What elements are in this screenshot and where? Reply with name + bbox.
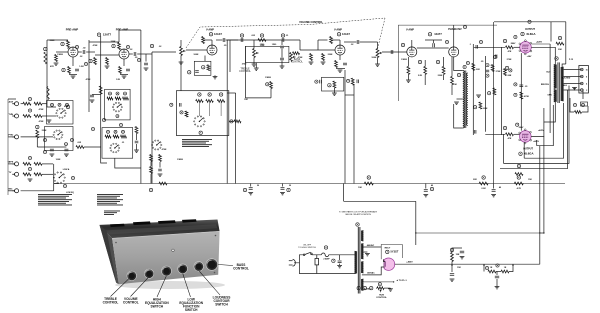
resistor R30 plate V2A [202, 37, 205, 44]
wire [318, 39, 328, 41]
wire to fuse [312, 254, 321, 255]
capacitor C51 filter [450, 274, 454, 276]
wire [67, 48, 69, 50]
wire cathode V1B [123, 59, 125, 66]
svg-text:270K: 270K [496, 71, 501, 73]
svg-text:TAPE: TAPE [8, 161, 14, 164]
wire to switch [42, 115, 56, 117]
terminal 8 ohm [581, 75, 584, 78]
wire grid feed 1 [474, 46, 505, 48]
transformer T2 primary top [554, 65, 557, 89]
resistor R63b [493, 88, 496, 95]
wire to switch [21, 136, 53, 138]
ground tone [254, 68, 259, 70]
resistor R18 mix [34, 173, 42, 176]
part number R37 [208, 93, 211, 96]
resistor R36 loudness [196, 100, 203, 103]
transformer T3 filament winding [361, 279, 363, 291]
part number [71, 176, 74, 179]
part number hum pot [378, 283, 381, 286]
wire [503, 134, 505, 163]
triode V4A phase inverter [407, 47, 417, 57]
resistor R10 decoupling A [99, 86, 102, 94]
wire HV top lead [362, 246, 381, 248]
resistor R39b [185, 111, 188, 117]
wire [281, 40, 283, 45]
wire plate V5 to output transformer [531, 47, 555, 64]
terminal board speaker [579, 66, 589, 94]
ground C10 [50, 154, 55, 156]
part number C3 [75, 45, 78, 48]
wire [443, 57, 445, 66]
svg-text:22K: 22K [473, 179, 477, 181]
resistor R23c [121, 135, 127, 138]
wire [415, 233, 417, 245]
wire B+ branch [344, 200, 416, 202]
wire [253, 58, 255, 65]
ground cathode V1B [122, 76, 127, 78]
resistor R59 [451, 77, 454, 85]
svg-text:470K: 470K [93, 44, 98, 47]
ground R52 [321, 62, 326, 64]
svg-text:16: 16 [586, 70, 588, 72]
resistor R17 mix [23, 173, 31, 176]
text block switch list 2 [104, 211, 120, 215]
wire [424, 74, 426, 85]
part number [116, 92, 119, 95]
ground C7 [144, 68, 149, 70]
svg-text:470K: 470K [39, 120, 44, 123]
wire [377, 42, 379, 49]
capacitor C13 [135, 141, 139, 143]
wire volume to loudness box [180, 62, 182, 91]
svg-text:20K: 20K [558, 49, 562, 51]
wire [483, 265, 485, 271]
resistor R22c [123, 97, 129, 100]
wire [451, 85, 453, 96]
resistor R47 bus [514, 182, 523, 185]
svg-text:AUX: AUX [9, 101, 14, 104]
capacitor C24 [282, 38, 284, 42]
wire plate V4B [453, 25, 455, 47]
svg-text:15K: 15K [528, 179, 532, 181]
wire grid V2A [186, 49, 207, 51]
wire sec tap 8 [564, 76, 581, 78]
svg-text:+425V: +425V [536, 41, 543, 44]
box feedback network V2 [194, 61, 211, 75]
svg-text:100K: 100K [56, 159, 61, 161]
svg-text:270K: 270K [507, 59, 512, 61]
part number [119, 123, 122, 126]
resistor R63 [479, 102, 482, 109]
wire cathode V1A [72, 57, 74, 66]
part number C7 [137, 58, 140, 61]
part number [122, 130, 125, 133]
wire [8, 163, 15, 165]
wire feedback loop 3 [504, 86, 570, 164]
svg-text:220K: 220K [111, 41, 116, 43]
svg-text:BLU: BLU [547, 72, 552, 74]
wire HV riser 1 [539, 146, 541, 265]
wire grid V1B [95, 54, 119, 56]
text block high EQ switch positions [97, 194, 123, 205]
resistor R16 mix [34, 163, 42, 166]
svg-text:12AX7: 12AX7 [342, 32, 350, 36]
tube pin circles V5 [519, 40, 532, 55]
wire B+ riser mid [415, 201, 417, 245]
part number V6 [519, 152, 522, 155]
wire [540, 232, 544, 234]
wire [245, 97, 271, 99]
wire [150, 162, 152, 167]
wire [299, 40, 301, 50]
svg-text:OUTPUT: OUTPUT [523, 148, 533, 151]
part number F1 [324, 246, 327, 249]
wire plate V5 hidden [525, 30, 527, 42]
wire feedback loop 1 [537, 105, 554, 146]
resistor R51 [310, 54, 313, 61]
svg-text:6L6GA: 6L6GA [524, 152, 533, 156]
wire eq bus [37, 146, 66, 148]
wire [582, 106, 588, 112]
svg-text:220K: 220K [328, 54, 333, 56]
svg-text:8: 8 [586, 77, 587, 79]
svg-text:10K: 10K [453, 84, 457, 86]
wire [203, 39, 212, 41]
part number C6b [126, 45, 129, 48]
knob volume control [144, 269, 153, 278]
wire [523, 142, 525, 158]
part number [528, 20, 531, 23]
rotary switch S5 high EQ B [110, 143, 120, 153]
part number R54 [328, 84, 331, 87]
svg-text:470K: 470K [524, 95, 529, 98]
ground driver [476, 95, 481, 97]
wire grid feed 2 [485, 133, 505, 135]
wire drop V3 [344, 70, 346, 184]
wire [101, 150, 107, 163]
part number C42 [315, 80, 318, 83]
ground treble [252, 64, 257, 66]
capacitor C41 coupling V3 [357, 40, 359, 44]
wire [129, 53, 133, 55]
part number J4 [28, 156, 31, 159]
rotary switch S6 loudness contour [194, 116, 206, 127]
transformer T3 HV secondary top [361, 231, 363, 242]
wire [229, 120, 234, 122]
wire HV top to plate [362, 246, 402, 248]
wire primary top lead [355, 251, 357, 255]
leader treble [111, 279, 129, 297]
resistor R78 filter [501, 270, 509, 273]
AC plug P1 [289, 259, 296, 266]
resistor R40 [150, 167, 153, 174]
text block loudness switch note [182, 139, 212, 147]
ground jack 5 [28, 179, 33, 181]
wire [376, 287, 377, 289]
svg-text:47K: 47K [508, 137, 512, 140]
part number R4 [62, 68, 65, 71]
transformer T2 core 1 [557, 62, 559, 103]
wire [42, 103, 47, 105]
resistor box R70 [581, 102, 588, 106]
part number [114, 130, 117, 133]
wire plate 1 [383, 259, 385, 261]
part number [107, 130, 110, 133]
leader loudness [199, 271, 220, 295]
part number C27 [170, 103, 173, 106]
ground C31 [280, 193, 285, 195]
capacitor C26 bass [280, 58, 284, 60]
wire [562, 64, 566, 67]
capacitor C50 line [338, 261, 342, 263]
part number [573, 103, 576, 106]
svg-text:47K: 47K [508, 50, 512, 53]
wire [339, 264, 341, 265]
svg-text:470K: 470K [39, 108, 44, 111]
svg-text:VOLUME CONTROL: VOLUME CONTROL [299, 21, 323, 24]
part number R55 [347, 79, 350, 82]
resistor R50 plate V3 [330, 37, 333, 44]
ground V4A [406, 80, 411, 82]
part number R77 [485, 266, 488, 269]
box network V3 [322, 77, 344, 91]
wire grid V1A [56, 51, 68, 53]
ground C8 [90, 100, 95, 102]
capacitor C27 loudness [179, 103, 181, 107]
part number J1 [28, 97, 31, 100]
part number R45 [367, 176, 370, 179]
wire [415, 201, 417, 233]
wire cathode V3 [339, 55, 341, 60]
terminal 16 ohm [581, 68, 584, 71]
wire main B+ bus [54, 183, 565, 185]
wire [484, 265, 488, 271]
wire [42, 163, 53, 165]
wire [333, 88, 335, 93]
wire to bus [54, 183, 59, 185]
svg-text:V-AMP: V-AMP [334, 29, 342, 32]
resistor R52 [322, 54, 325, 61]
wire [226, 39, 238, 41]
text block low EQ switch positions [38, 194, 72, 205]
svg-text:5Y3GT: 5Y3GT [391, 251, 399, 254]
part number V2 [209, 33, 212, 36]
wire screen feed [550, 22, 552, 42]
triode V3 12AX7 [335, 45, 345, 55]
svg-text:2.2K: 2.2K [481, 188, 486, 190]
ground hum [388, 289, 393, 291]
junction dot [512, 265, 513, 266]
svg-text:22K: 22K [476, 69, 480, 71]
wire [120, 74, 128, 76]
resistor R32 feedback [207, 65, 210, 71]
svg-text:★ TO PL-1: ★ TO PL-1 [395, 279, 407, 282]
wire HV riser 2 [543, 136, 545, 233]
part number R20 [36, 125, 39, 128]
ground C30 [248, 193, 253, 195]
part number R47 [517, 176, 520, 179]
wire [209, 101, 211, 116]
wire [152, 51, 176, 53]
part number R66 [503, 39, 506, 42]
part number [479, 40, 482, 43]
wire PI plate to T1 [454, 57, 463, 71]
potentiometer volume control A [180, 47, 186, 56]
ground C32 [423, 195, 428, 197]
ground V3 [338, 70, 343, 72]
svg-text:MIC: MIC [9, 189, 13, 191]
triode V4B phase inverter [449, 47, 459, 57]
dashed gang line volume control [186, 18, 385, 48]
wire grid V4A [382, 51, 407, 53]
wire [8, 190, 15, 192]
part number [58, 103, 61, 106]
box rectifier label [381, 245, 402, 260]
part number [51, 103, 54, 106]
ground pot2 [375, 64, 380, 66]
part number [418, 60, 421, 63]
ground C53 [495, 287, 500, 289]
resistor R62 [491, 65, 494, 72]
part number C32 [430, 187, 433, 190]
box high EQ switch A lower [102, 128, 133, 159]
resistor R33 [258, 39, 266, 42]
wire [47, 99, 56, 107]
ground C52 [460, 257, 465, 259]
svg-text:15K: 15K [457, 267, 461, 269]
svg-text:500K: 500K [372, 57, 377, 59]
svg-text:BLK-RED: BLK-RED [562, 78, 571, 80]
rotary switch S7 [151, 140, 162, 150]
transformer T1 core line 2 [465, 71, 467, 129]
wire [425, 39, 442, 41]
part number R32 [202, 66, 205, 69]
wire [229, 40, 231, 72]
wire drive bus 1 [472, 44, 474, 135]
svg-text:470K: 470K [298, 56, 303, 59]
ground grid V1A [54, 63, 59, 65]
wire [425, 184, 427, 189]
part number [66, 103, 69, 106]
wire [514, 46, 520, 48]
part number J2 [28, 109, 31, 112]
box tone network [245, 46, 289, 62]
resistor R37 loudness [206, 100, 213, 103]
ground jack bus [47, 120, 52, 122]
svg-text:PHO: PHO [9, 135, 14, 137]
part number C46 [486, 64, 489, 67]
resistor R2 grid leak [55, 55, 58, 62]
wire top link A [119, 29, 141, 31]
wire [582, 89, 584, 99]
resistor R35 [270, 82, 273, 89]
ground C33 [491, 195, 496, 197]
box low EQ switch A upper [47, 101, 74, 125]
part number S1 [66, 105, 69, 108]
rotary switch S1 input selector [56, 108, 67, 118]
wire plate V6 to transformer [531, 122, 544, 136]
leader volume [131, 278, 149, 297]
svg-text:470K: 470K [86, 78, 91, 81]
resistor R46 bus [479, 182, 488, 185]
wire tone left drop [244, 46, 246, 98]
photo amplifier chassis [100, 219, 226, 289]
wire channel separator [151, 52, 153, 184]
part number R46 [482, 176, 485, 179]
part number R39b [180, 111, 183, 114]
part number R3 [61, 42, 64, 45]
wire drive bus 2 [485, 56, 487, 132]
resistor R22b [115, 97, 121, 100]
wire B+ to T2 center [565, 22, 567, 64]
wire plate feed V1A [47, 39, 68, 41]
wire screen bus outputs [549, 44, 551, 133]
wire sec common [564, 88, 575, 91]
resistor R68 grid stopper [506, 133, 514, 136]
resistor R15 mix [23, 163, 31, 166]
beam tetrode V6 6L6GA output [520, 131, 532, 143]
ground grid V1B [105, 66, 110, 68]
part number C22 [188, 71, 191, 74]
wire [443, 74, 445, 80]
wire [198, 101, 200, 116]
capacitor C46 [486, 70, 490, 72]
resistor R7 grid V1B [106, 58, 109, 65]
wire [36, 138, 38, 147]
svg-text:1 MEG: 1 MEG [401, 59, 408, 61]
ground volume A [179, 62, 184, 64]
resistor R40b [234, 120, 241, 123]
resistor R12 mix [34, 102, 42, 105]
svg-text:GRN: GRN [547, 95, 552, 97]
box phase inverter outline [398, 25, 497, 101]
capacitor C28 [158, 169, 162, 171]
wire [216, 39, 222, 41]
transformer T1 secondary winding [466, 73, 467, 125]
part number hum 2 [363, 286, 366, 289]
part number [436, 60, 439, 63]
wire top B+ rail [494, 21, 566, 23]
wire [451, 262, 453, 273]
wire T1 return [454, 104, 463, 128]
part number [70, 138, 73, 141]
box loudness contour switch [176, 91, 228, 136]
wire [514, 133, 520, 135]
ground C50 [337, 266, 342, 268]
part number C30 [243, 188, 246, 191]
svg-text:100K: 100K [260, 45, 265, 47]
svg-text:12AT7: 12AT7 [434, 32, 442, 36]
svg-text:V-AMP: V-AMP [206, 29, 214, 32]
resistor R71 [575, 111, 582, 114]
wire V6 plate to T2 bottom [544, 102, 555, 122]
capacitor C5 bypass B [126, 69, 130, 71]
wire [331, 39, 340, 41]
resistor R53 cathode [335, 61, 338, 68]
capacitor C42b [357, 80, 359, 84]
resistor R54 [333, 81, 336, 88]
part number C23 [240, 34, 243, 37]
wire [136, 144, 138, 150]
svg-text:100K: 100K [483, 108, 488, 110]
beam tetrode V5 6L6GA output [520, 42, 532, 54]
ground T1 tap [454, 102, 459, 104]
knob treble control [127, 271, 137, 281]
wire [220, 101, 222, 116]
part number R1 [44, 47, 47, 50]
wire [509, 265, 513, 271]
